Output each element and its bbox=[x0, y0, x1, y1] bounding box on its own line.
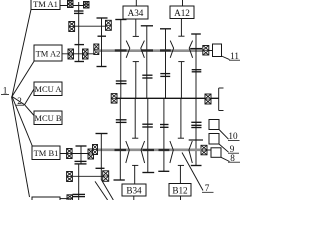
driven gear bars below A4 bbox=[116, 81, 127, 84]
motor box TM A1 bbox=[31, 0, 60, 10]
svg-text:TM A2: TM A2 bbox=[36, 48, 61, 58]
leader to label 9 bbox=[219, 144, 229, 152]
gear mesh bars TM B2 upper bbox=[75, 161, 87, 164]
gear A2 wheel bbox=[160, 29, 171, 99]
driven gear bars above B3 bbox=[142, 124, 153, 127]
controller box MCU B bbox=[34, 111, 62, 125]
label 7 bbox=[202, 183, 214, 193]
wire TM B2 box to line bbox=[60, 198, 67, 200]
motor TM B2 shaft line bbox=[73, 175, 103, 177]
leader line bottom left bbox=[95, 181, 108, 200]
svg-text:8: 8 bbox=[230, 153, 235, 163]
leader to label 8 bbox=[221, 157, 230, 161]
svg-text:A12: A12 bbox=[174, 8, 190, 18]
synchronizer A12 bbox=[170, 0, 192, 98]
bearing TM B1 right bbox=[88, 149, 94, 159]
svg-text:MCU A: MCU A bbox=[34, 84, 62, 94]
svg-text:B34: B34 bbox=[126, 186, 142, 196]
bearing lower layshaft right end bbox=[201, 145, 207, 155]
svg-text:A34: A34 bbox=[128, 8, 144, 18]
idler shaft A vertical bbox=[78, 2, 80, 62]
pinion bearing TM A1 bbox=[84, 2, 90, 9]
part 10 box bbox=[209, 120, 219, 130]
bearing TM B2 line bottom (clipped) bbox=[67, 195, 73, 202]
output shaft bottom gear bar bbox=[191, 165, 202, 167]
wire node1 to TM A2 bbox=[12, 61, 35, 97]
countershaft lower top gear bar bbox=[96, 133, 108, 135]
countershaft upper vertical bbox=[101, 18, 103, 67]
bearing upper layshaft right end bbox=[203, 46, 209, 56]
output flange bracket bbox=[219, 88, 224, 111]
gear bar on output shaft at layshaft bbox=[190, 48, 202, 50]
actuator box A34 bbox=[123, 6, 148, 19]
svg-text:7: 7 bbox=[205, 183, 210, 193]
countershaft middle gear bar bbox=[98, 35, 107, 37]
countershaft lower vertical bbox=[100, 134, 102, 181]
bearing shaft A right bbox=[106, 20, 112, 30]
actuator box B12 bbox=[169, 184, 191, 197]
gear B3 wheel bbox=[142, 98, 154, 172]
synchronizer B34 bbox=[126, 98, 145, 200]
bearing TM A2 left bbox=[68, 49, 74, 59]
countershaft bottom gear bar bbox=[97, 66, 107, 68]
svg-text:1: 1 bbox=[3, 86, 8, 96]
driven gear bars above B2 bbox=[160, 125, 169, 128]
wire node2 to MCU A bbox=[25, 89, 35, 105]
bearing shaft A left bbox=[69, 22, 75, 32]
gear mesh bars TM A1 bbox=[74, 11, 84, 13]
svg-text:TM A1: TM A1 bbox=[33, 0, 58, 9]
node 1 label bbox=[1, 86, 9, 96]
motor TM A1 output line bbox=[60, 5, 86, 7]
motor box TM B2 (clipped at bottom edge) bbox=[32, 197, 60, 209]
output shaft right vertical bbox=[195, 34, 197, 166]
svg-text:11: 11 bbox=[230, 51, 239, 61]
gear bar on output shaft below middle bbox=[191, 121, 201, 123]
driven gear bars above B4 bbox=[116, 120, 127, 123]
driven gear bars below A2 bbox=[160, 74, 170, 77]
input shaft A bbox=[75, 25, 106, 27]
controller box MCU A bbox=[34, 82, 62, 96]
motor TM B1 output line bbox=[60, 153, 92, 155]
idler gear shaft TM B1 bbox=[76, 146, 87, 164]
label 10 bbox=[228, 131, 240, 141]
label 8 bbox=[228, 153, 240, 163]
wire layshaft to part 11 box bbox=[209, 50, 213, 52]
node 2 label bbox=[16, 96, 24, 106]
motor TM A2 output line bbox=[62, 53, 94, 55]
leader line bottom right bbox=[101, 180, 113, 200]
actuator box A12 bbox=[170, 6, 194, 19]
label 11 bbox=[229, 51, 240, 61]
svg-text:10: 10 bbox=[228, 131, 238, 141]
countershaft lower middle gear bar bbox=[96, 167, 105, 169]
idler shaft B vertical bbox=[78, 164, 80, 200]
bearing TM B1 left bbox=[67, 149, 73, 159]
synchronizer A34 bbox=[126, 0, 144, 98]
wire node1 to TM A1 bbox=[12, 10, 31, 97]
lower layshaft (gray) bbox=[95, 149, 202, 152]
label 9 bbox=[228, 144, 239, 154]
part 11 box bbox=[213, 44, 222, 57]
svg-text:TM B1: TM B1 bbox=[34, 148, 59, 158]
gear bars on output shaft upper bbox=[192, 70, 202, 72]
gear B2 wheel bbox=[158, 98, 169, 171]
part 9 box bbox=[209, 134, 219, 145]
countershaft top gear bar bbox=[97, 17, 108, 19]
bearing middle shaft right bbox=[205, 94, 211, 104]
wire layshaft to part 8 box bbox=[207, 149, 211, 151]
wire node1 to node2 bbox=[12, 97, 25, 105]
wire node1 to TM B1 bbox=[12, 97, 33, 147]
actuator box B34 bbox=[122, 184, 146, 196]
bearing shaft B left bbox=[67, 172, 73, 182]
bearing upper layshaft left end bbox=[94, 44, 99, 55]
gear mesh bars TM B2 lower bbox=[73, 194, 86, 196]
part 8 box bbox=[211, 148, 221, 158]
gear bar on idler shaft A bbox=[75, 44, 85, 46]
motor box TM B1 bbox=[32, 146, 60, 160]
synchronizer B12 bbox=[170, 98, 192, 200]
bearing shaft B right bbox=[103, 171, 109, 182]
wide gear bar on output shaft bbox=[189, 139, 203, 141]
wire node2 to MCU B bbox=[25, 105, 35, 116]
output shaft top gear bar bbox=[191, 33, 201, 35]
wire node1 to TM B2 bbox=[12, 97, 30, 198]
leader to label 7 bbox=[182, 153, 203, 191]
svg-text:B12: B12 bbox=[172, 185, 188, 195]
middle output shaft bbox=[111, 97, 219, 99]
leader to label 11 bbox=[222, 56, 230, 60]
bearing lower layshaft left end bbox=[93, 145, 98, 155]
gear B4 wheel bbox=[114, 98, 127, 180]
bearing on TM A1 line bbox=[68, 1, 74, 8]
bottom gear bar on idler shaft A bbox=[75, 61, 85, 63]
svg-text:MCU B: MCU B bbox=[34, 113, 61, 123]
gear A3 wheel bbox=[141, 26, 153, 99]
gear A4 wheel bbox=[115, 20, 127, 99]
leader to label 10 bbox=[219, 130, 229, 140]
bearing middle shaft left bbox=[111, 94, 117, 104]
motor box TM A2 bbox=[34, 45, 62, 61]
upper layshaft (gray) bbox=[96, 49, 203, 52]
bearing TM A2 right bbox=[83, 49, 89, 59]
driven gear bars below A3 bbox=[142, 75, 152, 78]
gear bars on output shaft lower bbox=[191, 125, 201, 127]
